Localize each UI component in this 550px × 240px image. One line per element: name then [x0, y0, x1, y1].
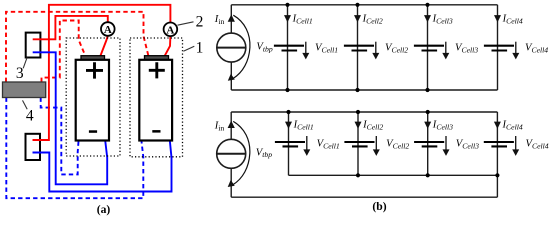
arrow V_Cell1 [305, 42, 307, 54]
ammeter A1 [101, 22, 115, 36]
pointer to label 4 [23, 100, 28, 109]
capacitor C1 plates [275, 142, 305, 146]
arrow V_Cell2 [375, 42, 377, 54]
wire: source bottom lead [230, 62, 232, 90]
curved source arrow [233, 121, 250, 184]
arrow I_Cell4 [494, 15, 501, 22]
wire: red solid current lead from lower connector up across top to ammeter A2 [33, 5, 171, 140]
svg-text:1: 1 [196, 40, 204, 57]
junction dots top diagram [285, 3, 429, 92]
plus sign B1 [86, 62, 103, 78]
pointer to label 2 [178, 22, 194, 25]
arrow V_Cell1 [306, 136, 308, 150]
wire: bottom rail [231, 89, 497, 91]
arrow V_Cell3 [445, 42, 447, 54]
arrow I_Cell2 [355, 122, 362, 129]
curved source arrow [233, 15, 250, 78]
wire: cell branch 1 [287, 5, 289, 90]
capacitor C1 plates [274, 46, 304, 51]
svg-text:(a): (a) [97, 203, 111, 216]
current source U1 bar [217, 47, 246, 49]
wire: inner bottom rail [289, 174, 498, 176]
wire: red dashed sense lead, pack box to cell 2 positive terminal [6, 12, 149, 82]
arrow I_Cell3 [424, 122, 431, 129]
battery cell B2 body [145, 56, 169, 61]
arrow V_Cell4 [515, 42, 517, 54]
current source U2 circle [217, 139, 246, 168]
wire: blue dashed sense lead, pack box to cell 2 negative terminal [6, 98, 143, 199]
minus sign B1 [89, 130, 97, 133]
arrow V_Cell4 [515, 136, 517, 150]
wire: cell branch 1 [288, 112, 290, 175]
capacitor C4 plates [484, 142, 514, 146]
junction dots bottom diagram [286, 110, 499, 177]
wire: cell branch 2 [357, 5, 359, 90]
wire: source top lead [230, 112, 232, 139]
dotted enclosure cell 2 [130, 38, 183, 157]
arrow V_Cell3 [445, 136, 447, 150]
current source U1 circle [217, 33, 246, 62]
svg-text:A: A [104, 24, 112, 36]
wire: source bottom lead [230, 168, 232, 197]
arrow I_Cell2 [354, 15, 361, 22]
wire: top rail [231, 111, 497, 113]
capacitor C3 plates [414, 46, 444, 51]
wire: blue dashed sense lead, pack box to cell 1 negative terminal [41, 98, 79, 175]
pointer to label 3 [23, 58, 27, 69]
wire: top rail [231, 4, 497, 6]
connector box 3 [26, 33, 41, 58]
ammeter A2 [164, 23, 178, 37]
capacitor C2 plates [344, 142, 374, 146]
wire: blue solid from lower connector along bottom to cell 2 negative [33, 141, 172, 191]
dotted enclosure cell 1 [66, 38, 120, 156]
wire: red solid from A1 to cell 1 positive cap [100, 36, 107, 56]
wire: red solid current lead from upper connector (3) to ammeter A1 [33, 16, 108, 39]
svg-text:2: 2 [196, 13, 204, 30]
wire: outer bottom rail [231, 196, 497, 198]
arrow I_Cell1 [285, 122, 292, 129]
capacitor C4 plates [484, 46, 514, 51]
wire: cell branch 4 [496, 112, 498, 197]
capacitor C2 plates [344, 46, 374, 51]
wire: cell branch 3 [427, 5, 429, 90]
connector box lower [26, 134, 41, 160]
capacitor C3 plates [414, 142, 444, 146]
minus sign B2 [152, 130, 160, 133]
svg-text:4: 4 [26, 107, 34, 124]
wire: cell branch 4 [497, 5, 499, 90]
wire: cell branch 2 [357, 112, 359, 175]
svg-text:(b): (b) [372, 200, 386, 213]
wire: cell branch 3 [427, 112, 429, 175]
arrow V_Cell2 [375, 136, 377, 150]
svg-text:3: 3 [16, 65, 24, 82]
arrow I_in [228, 14, 235, 21]
wire: red dashed sense lead, pack box to cell 1 positive terminal [42, 21, 86, 83]
arrow I_in [228, 121, 235, 128]
wire: blue solid from upper connector (3) down and to cell 1 negative [33, 52, 108, 184]
pointer to label 1 [183, 46, 194, 51]
arrow I_Cell1 [284, 15, 291, 22]
svg-text:A: A [166, 24, 174, 36]
arrow I_Cell3 [424, 15, 431, 22]
current source U2 bar [217, 153, 246, 155]
wire: source top lead [230, 5, 232, 33]
wire: red solid from A2 to cell 2 positive cap [165, 36, 171, 56]
arrow I_Cell4 [494, 122, 501, 129]
battery cell B1 body [81, 56, 105, 61]
plus sign B2 [149, 62, 165, 78]
pack interface box 4 (gray) [3, 82, 46, 98]
